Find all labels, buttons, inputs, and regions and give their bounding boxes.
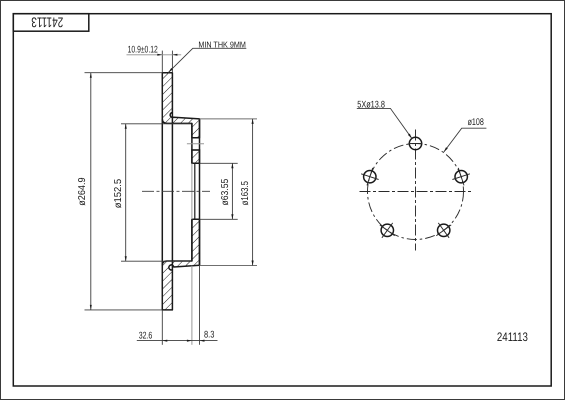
leader Ø108 [444,128,487,152]
band outboard face silhouette line [161,119,163,265]
dim ø152.5 arrow bottom [125,256,127,261]
bolt hole upper-left [361,168,379,186]
wall segment between bolt hole and bore (hatched) [192,150,200,163]
hub wall right face line [199,119,201,265]
dim ø163.5 ext line bottom (gray) [200,265,258,267]
svg-text:32.6: 32.6 [139,331,153,342]
dim ø264.9 arrow bottom [90,305,92,310]
disc section upper cut region (hatched) [162,73,199,138]
hub wall left face line lower [191,219,193,261]
hub wall left face line upper [191,123,193,163]
leader Ø108 arrow [444,147,448,152]
dim ø264.9 arrow top [90,73,92,78]
bottom dim ext line at band face [161,310,163,345]
dim ø152.5 ext line top [121,123,191,125]
dim 10.9 arrow right [172,54,177,56]
MIN THK leader arrow [168,68,173,73]
dim ø63.55 ext line top [200,162,238,164]
dim ø264.9 ext line bottom [85,309,163,311]
svg-text:8.3: 8.3 [204,330,214,341]
dim 10.9 ext line left [161,51,163,73]
bolt hole lower-right [436,223,451,238]
disc section lower cut region (hatched) [162,219,199,310]
dim ø163.5 arrow top [252,119,254,124]
arrow at 162.3 [162,340,167,342]
svg-text:ø63.55: ø63.55 [220,178,231,205]
bolt hole axis (gray) [187,143,204,145]
bolt circle ø108 (dash-dot) [368,144,464,240]
centre bore inner edge line [194,163,196,219]
dim ø264.9 dimension line [90,73,92,310]
svg-text:ø152.5: ø152.5 [113,178,124,208]
bolt hole upper-right [452,168,470,186]
svg-text:ø163.5: ø163.5 [240,181,251,206]
dim ø63.55 arrow top [231,163,233,168]
right view horizontal centerline [360,191,472,193]
bottom dim ext line at mounting face (gray) [191,266,193,345]
right view vertical centerline [415,130,417,251]
dim ø163.5 dimension line [252,119,254,266]
bolt hole lower edge [192,149,200,151]
dim ø163.5 ext line top (gray) [200,118,258,120]
leader 5XØ13.8 arrow [408,134,412,139]
dim ø63.55 dimension line [231,163,233,219]
svg-text:241113: 241113 [31,15,63,31]
arrow at 191.9 [187,340,192,342]
dim ø264.9 ext line top [85,72,163,74]
svg-text:ø108: ø108 [468,117,484,128]
bottom dimension line 32.6 / 8.3 [137,340,218,342]
svg-text:ø264.9: ø264.9 [77,177,88,206]
bolt hole top [409,137,423,149]
bolt hole lower-left [380,223,395,238]
dim ø63.55 arrow bottom [231,214,233,219]
dim ø152.5 arrow top [125,124,127,129]
title box top-left [13,14,89,32]
dim ø152.5 ext line bottom [121,260,191,262]
hub wall left face through bore (thin gray) [191,163,193,219]
dim ø63.55 ext line bottom [200,218,238,220]
leader 5XØ13.8 [357,108,412,138]
bolt hole upper edge [192,137,200,139]
arrow at 199.5 [200,340,205,342]
svg-text:241113: 241113 [497,330,528,344]
dim 10.9 dimension line [127,54,182,56]
dim ø163.5 arrow bottom [252,261,254,266]
MIN THK leader line [168,48,246,72]
dim 10.9 ext line right [171,51,173,73]
band inboard face silhouette line [171,113,173,270]
section centerline [142,190,210,192]
dim ø152.5 dimension line [125,124,127,261]
bottom dim ext line at wall right face [199,266,201,345]
svg-text:10.9±0.12: 10.9±0.12 [128,45,158,56]
dim 10.9 arrow left [157,54,162,56]
